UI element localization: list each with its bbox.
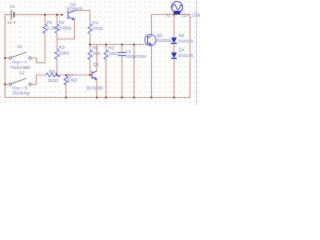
svg-text:100kΩ: 100kΩ (59, 26, 72, 31)
wire C1 leads (121, 45, 123, 53)
svg-text:12V_10W: 12V_10W (182, 13, 201, 18)
svg-text:R1: R1 (47, 20, 53, 25)
junction ground rail at C1 (121, 97, 123, 99)
wire Q4 collector to R4 (75, 11, 91, 25)
wire D3 top (173, 15, 175, 38)
switch S2 (9, 78, 31, 85)
wire R2 bottom to Q4 emitter (57, 38, 75, 40)
junction on top rail at R1 (44, 14, 46, 16)
transistor Q4 (68, 11, 75, 20)
svg-text:V1: V1 (10, 4, 16, 9)
svg-text:R6: R6 (108, 45, 114, 50)
resistor R7 (64, 76, 68, 85)
battery V1 (11, 10, 14, 20)
wire R6 leads (105, 45, 107, 51)
wire node A to ground at x134 (133, 45, 135, 98)
junction mid wire at R5/Q1 base (89, 74, 91, 76)
junction on top rail at D3 (173, 14, 175, 16)
wire node A horizontal (90, 44, 148, 46)
svg-text:Q3: Q3 (157, 33, 163, 38)
svg-text:12 V: 12 V (7, 20, 17, 25)
junction on top rail at Q4 base (61, 14, 63, 16)
svg-text:D4: D4 (179, 48, 185, 53)
svg-text:BC546B: BC546B (67, 6, 83, 11)
wire top rail left (15, 14, 63, 16)
svg-text:R4: R4 (92, 20, 98, 25)
wire Q1 emitter vertical (96, 79, 98, 97)
wire mid horizontal to Q1 base (60, 74, 92, 76)
diode D4 (171, 53, 177, 58)
resistor R3 (55, 49, 59, 59)
wire R2 column (56, 15, 58, 24)
svg-text:Türkontakt: Türkontakt (10, 65, 31, 70)
svg-text:1N4148: 1N4148 (178, 39, 194, 44)
svg-text:330Ω: 330Ω (48, 78, 59, 83)
resistor R4 (88, 24, 92, 34)
switch S1 (9, 52, 31, 59)
wire D4 bottom (173, 59, 175, 98)
wire bottom rail (5, 97, 190, 99)
svg-text:S2: S2 (19, 71, 25, 76)
junction left rail at S1 (4, 57, 6, 59)
resistor R2 (55, 24, 59, 33)
wire Q1 collector vertical (96, 45, 98, 71)
svg-text:10kΩ: 10kΩ (67, 77, 78, 82)
junction mid wire at R3 (56, 74, 58, 76)
wire Q3 collector vertical (151, 15, 153, 35)
svg-text:10kΩ: 10kΩ (59, 51, 70, 56)
svg-text:BC546B: BC546B (87, 85, 103, 90)
lamp X1 (172, 2, 183, 13)
resistor R8 (46, 73, 60, 77)
resistor R6 (104, 50, 108, 60)
svg-text:R2: R2 (59, 20, 65, 25)
wire R5 leads (89, 45, 91, 51)
resistor R1 (43, 24, 47, 33)
svg-text:R3: R3 (59, 45, 65, 50)
svg-text:D3: D3 (179, 33, 185, 38)
svg-text:Key = A: Key = A (12, 60, 28, 65)
transistor Q3 (power, in circle) (145, 34, 156, 45)
wire S2 left stub (5, 83, 9, 85)
junction left rail at S2 (4, 83, 6, 85)
junction mid wire at R7 (65, 74, 67, 76)
junction on top rail at R2 (56, 14, 58, 16)
junction node A at R4/R5 (89, 44, 91, 46)
wire S2 right step up (31, 75, 46, 84)
junction ground rail at R6 (105, 97, 107, 99)
junction ground rail at R7 (65, 97, 67, 99)
wire battery left + left vertical (5, 15, 11, 98)
junction ground rail at D4 (173, 97, 175, 99)
wire S1 left stub (5, 57, 9, 59)
svg-text:R8: R8 (49, 69, 55, 74)
svg-text:Zündung: Zündung (12, 91, 30, 96)
svg-text:1N4148: 1N4148 (178, 53, 194, 58)
wire R7 bottom (65, 85, 67, 98)
wire right vertical (189, 15, 191, 98)
wire R1 column (44, 15, 46, 24)
transistor Q1 (92, 71, 97, 79)
svg-text:R5: R5 (92, 45, 98, 50)
wire Q4 emitter vertical (74, 20, 76, 39)
svg-text:Q1: Q1 (93, 62, 99, 67)
junction node A at R6 (105, 44, 107, 46)
junction ground rail at x=134 (133, 97, 135, 99)
junction node A at C1 (121, 44, 123, 46)
wire Q3 emitter vertical (151, 45, 153, 97)
junction ground rail at Q1 emitter (96, 97, 98, 99)
wire R3 column (56, 39, 58, 49)
junction node A at x=134 (133, 44, 135, 46)
svg-text:1kΩ: 1kΩ (92, 51, 101, 56)
junction ground rail at Q3 emitter (151, 97, 153, 99)
resistor R5 (88, 50, 92, 60)
wire R4 bottom (89, 34, 91, 45)
svg-text:X1: X1 (165, 13, 171, 18)
capacitor C1 (118, 53, 126, 56)
wire S1 right to R1 (31, 58, 45, 63)
svg-text:10kΩ: 10kΩ (108, 51, 119, 56)
svg-text:470Ω: 470Ω (92, 26, 103, 31)
svg-text:100µF/25V: 100µF/25V (126, 54, 148, 59)
svg-text:2N3055A: 2N3055A (156, 38, 175, 43)
diode D3 (171, 38, 177, 43)
svg-text:S1: S1 (17, 44, 23, 49)
wire D3-D4 (173, 44, 175, 53)
wire top rail right (152, 14, 191, 16)
svg-text:C1: C1 (126, 49, 132, 54)
